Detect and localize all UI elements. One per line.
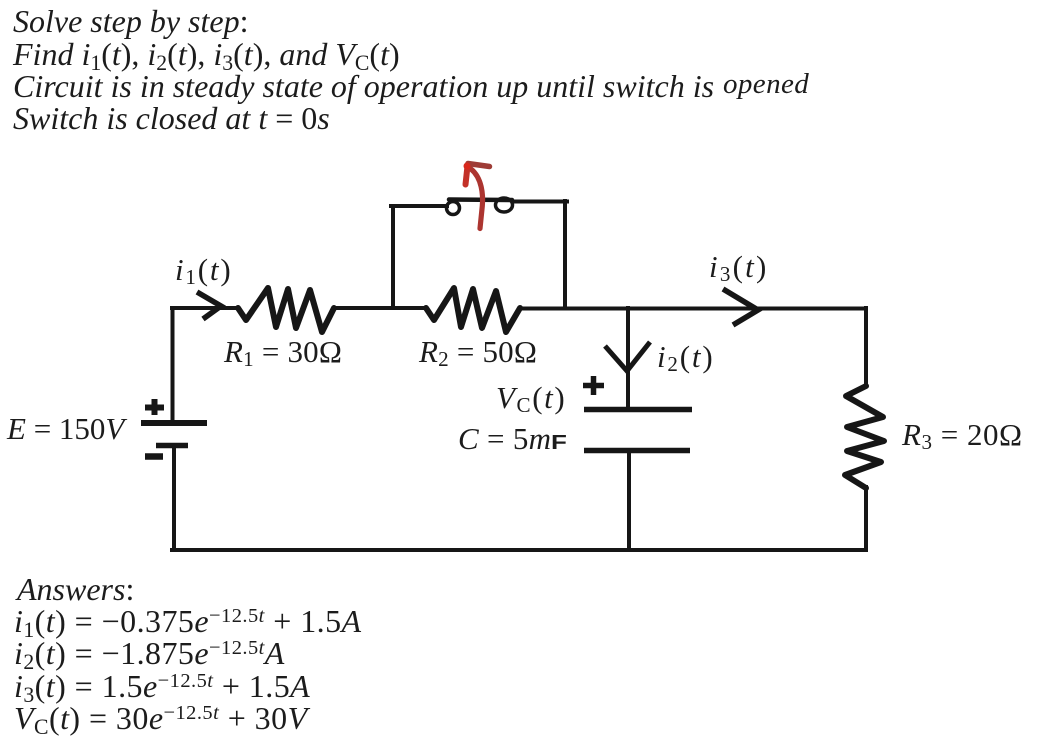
wire switch right leg [563, 201, 567, 308]
wire left vertical (E top) [171, 308, 175, 420]
capacitor C top plate [584, 407, 692, 413]
red arrow head horizontal stroke [468, 164, 490, 167]
battery E bottom plate [156, 443, 188, 449]
wire bottom rail [172, 548, 866, 552]
resistor R2 [426, 288, 520, 332]
label E value [7, 411, 124, 447]
wire between R1 and R2 [334, 306, 426, 310]
red switch-opening arrow shaft [471, 169, 483, 229]
arrow i1 [197, 292, 221, 319]
answers block [17, 571, 134, 608]
switch contact circle right [496, 198, 513, 212]
top problem text [13, 3, 248, 40]
switch blade bar [449, 197, 512, 202]
arrow i3 [723, 289, 758, 325]
label i1(t) [175, 252, 232, 288]
wire top left horizontal [172, 306, 238, 310]
wire switch left leg [391, 206, 395, 308]
switch contact circle left [447, 202, 460, 215]
battery E top plate [141, 420, 207, 426]
wire right vertical upper (to R3) [864, 308, 868, 386]
red arrow head vertical stroke [466, 166, 468, 185]
wire right vertical lower (from R3) [864, 487, 868, 550]
resistor R3 [845, 386, 884, 488]
resistor R1 [238, 288, 334, 332]
label C value [458, 421, 564, 457]
battery minus sign [145, 453, 163, 460]
wire capacitor bottom lead [627, 452, 631, 550]
capacitor C bottom plate [584, 448, 690, 454]
label Vc(t) [496, 380, 566, 416]
capacitor plus sign [583, 376, 604, 395]
battery plus sign [145, 399, 164, 415]
wire E bottom to bottom rail [172, 447, 176, 550]
label R3 value [902, 417, 1023, 453]
label R1 value [224, 334, 342, 370]
wire capacitor top lead [626, 308, 630, 408]
wire switch top left horizontal [391, 204, 447, 208]
red arrow tip blob [464, 163, 471, 170]
label R2 value [419, 334, 537, 370]
arrow i2 [605, 342, 650, 371]
label i3(t) [709, 249, 768, 285]
wire R2 right to right corner [520, 307, 866, 311]
label i2(t) [657, 339, 714, 375]
wire switch top right horizontal [513, 200, 567, 204]
